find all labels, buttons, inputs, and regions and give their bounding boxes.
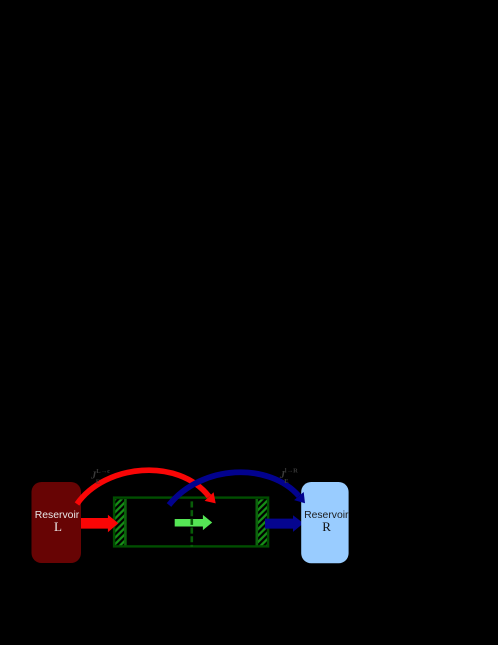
dashed center line: [191, 501, 194, 547]
red straight arrow L->channel: [81, 515, 119, 532]
left wall inner edge: [124, 499, 127, 546]
svg-text:E: E: [96, 479, 100, 486]
left wall (hatched barrier): [115, 499, 125, 545]
svg-text:l→R: l→R: [285, 468, 298, 475]
right wall (hatched barrier): [258, 499, 268, 545]
svg-text:L: L: [54, 519, 62, 534]
svg-text:R: R: [322, 519, 331, 534]
reservoir R box: [301, 482, 348, 563]
blue curved arrow (arc): [169, 472, 299, 505]
red curved arrow (arc): [77, 470, 209, 504]
right wall inner edge: [255, 499, 258, 546]
reservoir L box: [32, 482, 82, 563]
svg-text:L→c: L→c: [96, 468, 110, 475]
blue straight arrow channel->R: [265, 515, 304, 532]
channel box: [114, 498, 268, 547]
svg-text:E: E: [284, 478, 288, 485]
blue arc arrowhead: [294, 492, 305, 503]
green flow arrow in channel: [175, 515, 213, 530]
red arc arrowhead: [205, 492, 216, 503]
